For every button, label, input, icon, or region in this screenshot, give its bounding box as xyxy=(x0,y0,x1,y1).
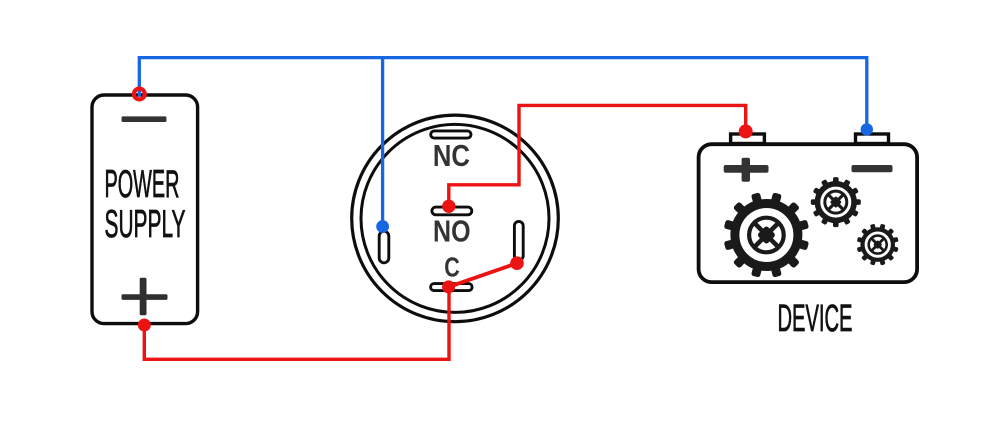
junction dot device minus terminal xyxy=(861,123,873,135)
switch terminal slot NC xyxy=(431,131,471,138)
junction dot switch NO xyxy=(442,200,455,213)
switch terminal slot NO xyxy=(432,207,472,215)
gear small xyxy=(857,224,899,266)
wire blue branch down to switch lamp terminal left xyxy=(381,58,384,227)
gear large xyxy=(724,192,809,277)
power supply minus terminal bar xyxy=(122,116,167,122)
svg-text:NO: NO xyxy=(433,215,471,249)
device minus mark xyxy=(852,165,893,172)
switch terminal slot C xyxy=(431,284,473,291)
switch lamp terminal slot right xyxy=(514,221,523,260)
device DEV1 terminal tab right xyxy=(856,134,889,144)
svg-text:C: C xyxy=(444,251,460,282)
switch S1 inner circle xyxy=(361,124,549,312)
switch lamp terminal slot left xyxy=(379,231,389,263)
svg-text:POWER: POWER xyxy=(105,163,180,206)
junction dot switch lamp right xyxy=(510,256,524,270)
junction dot switch lamp left (blue) xyxy=(376,220,389,233)
wire red positive: PS bottom, bottom run, up to switch C xyxy=(144,287,449,359)
device DEV1 body xyxy=(699,144,918,282)
junction dot device plus terminal xyxy=(739,124,753,138)
power supply PS1 body xyxy=(92,95,198,324)
junction dot PS plus terminal xyxy=(138,319,151,332)
svg-text:NC: NC xyxy=(433,139,470,173)
junction ring PS minus terminal xyxy=(134,89,145,100)
switch S1 outer circle xyxy=(352,115,559,322)
power supply plus terminal cross xyxy=(122,278,168,315)
wire blue negative: PS top, top run, down to device minus terminal xyxy=(139,58,867,130)
gear medium xyxy=(811,177,861,227)
device plus mark xyxy=(724,158,769,182)
svg-text:DEVICE: DEVICE xyxy=(778,298,853,340)
device DEV1 terminal tab left xyxy=(731,134,765,144)
wire red from switch NO up and over to device plus terminal xyxy=(449,105,746,206)
wire red jumper C to lamp terminal right xyxy=(449,263,517,287)
svg-text:SUPPLY: SUPPLY xyxy=(105,203,186,246)
junction dot switch C xyxy=(442,280,455,293)
